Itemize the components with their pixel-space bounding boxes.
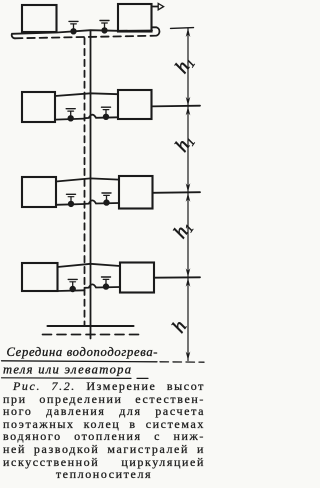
- floor2 tie line to dimension: [153, 191, 200, 194]
- floor3 return branch left: [55, 119, 85, 120]
- valve K7: [68, 279, 77, 291]
- radiator R1 (floor 4 left top): [22, 5, 57, 32]
- floor2 return branch right with hook over riser: [85, 200, 120, 203]
- radiator R7 (floor 1 left): [22, 263, 58, 291]
- dimension line vertical: [187, 28, 189, 361]
- radiator R2 (floor 4 right top): [118, 4, 152, 32]
- valve K6: [102, 193, 111, 205]
- arrowhead up at top tick: [186, 28, 191, 37]
- arrowhead down at datum: [186, 352, 191, 361]
- arrowheads at floor1 tick: [186, 268, 191, 287]
- datum underline (extended to dimension line): [2, 361, 158, 362]
- supply riser (solid): [90, 30, 92, 338]
- arrowheads at floor3 tick: [186, 97, 191, 116]
- floor1 return branch right with hook over riser: [85, 284, 121, 287]
- radiator R6 (floor 2 right): [119, 176, 153, 209]
- bottom return main (dashed): [43, 334, 139, 336]
- floor3 return branch right with hook over riser: [85, 115, 119, 119]
- floor1 return branch left: [58, 289, 85, 292]
- svg-text:h1: h1: [170, 217, 197, 242]
- svg-text:h1: h1: [171, 52, 198, 77]
- valve K8: [102, 277, 111, 289]
- svg-text:теля или элеватора: теля или элеватора: [3, 363, 131, 377]
- top return dashed main: [15, 36, 150, 39]
- svg-text:h1: h1: [171, 131, 198, 156]
- figure caption: [3, 380, 205, 481]
- top supply line: [12, 30, 152, 38]
- radiator R8 (floor 1 right): [120, 263, 154, 293]
- floor3 tie line to dimension: [152, 105, 201, 108]
- valve K4: [102, 107, 111, 119]
- valve K2 on top supply: [100, 21, 109, 34]
- arrowheads at floor2 tick: [186, 183, 191, 202]
- floor2 supply branch: [56, 178, 119, 181]
- radiator R4 (floor 3 right): [118, 90, 152, 119]
- valve K3: [66, 109, 75, 121]
- datum underline 2: [2, 377, 149, 380]
- floor3 supply branch: [55, 93, 118, 96]
- valve K5: [67, 194, 76, 206]
- dimension extension tick (top): [171, 27, 194, 30]
- svg-text:Середина водоподогрева-: Середина водоподогрева-: [7, 345, 158, 359]
- bottom supply main (solid): [48, 325, 134, 327]
- floor2 return branch left: [56, 203, 85, 206]
- air vent at R2: [152, 3, 164, 9]
- floor1 supply branch: [58, 264, 121, 267]
- valve K1 on top supply: [69, 21, 78, 34]
- top return elbow at R2: [151, 27, 160, 36]
- return riser (dashed): [84, 38, 86, 326]
- floor1 tie line to dimension: [154, 276, 200, 278]
- radiator R3 (floor 3 left): [22, 92, 55, 122]
- radiator R5 (floor 2 left): [22, 177, 56, 207]
